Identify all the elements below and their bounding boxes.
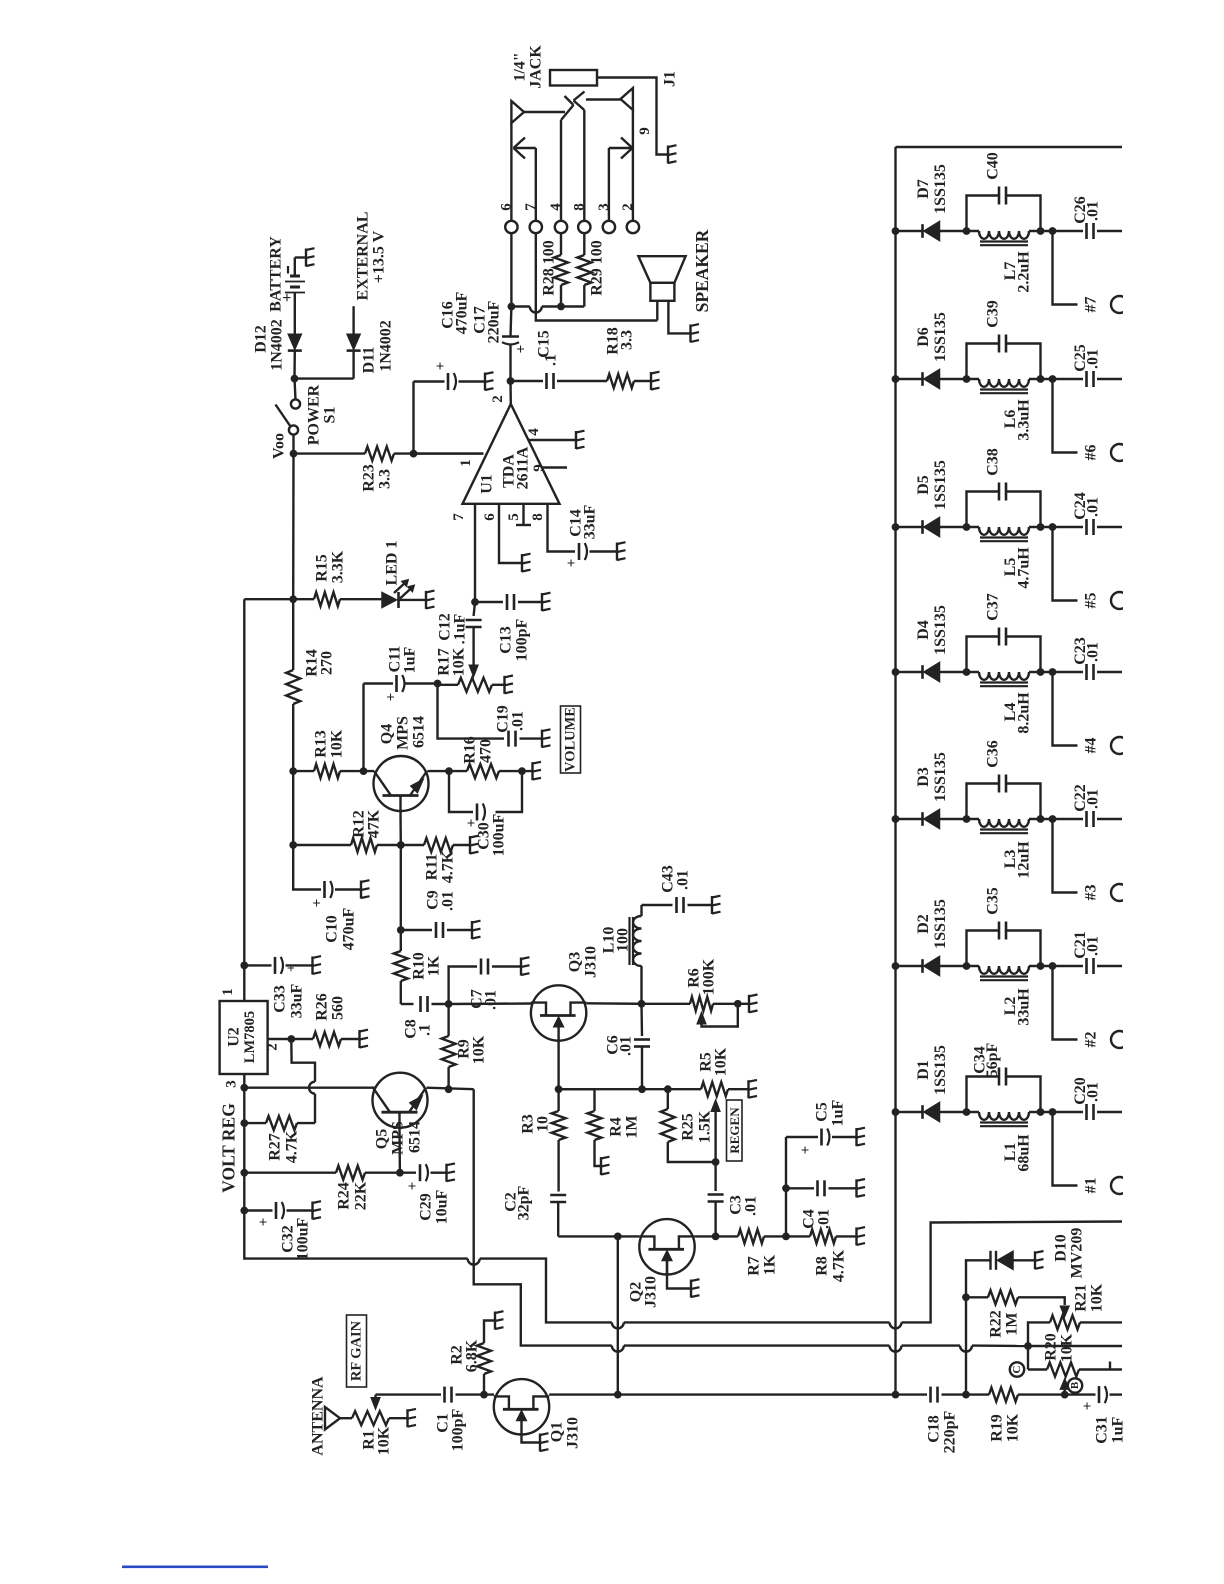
page margin mask bbox=[1123, 0, 1224, 1584]
label C17 220uF bbox=[472, 300, 503, 343]
potentiometer R20 10K bbox=[1028, 1362, 1122, 1377]
capacitor C43 .01 bbox=[677, 897, 712, 913]
svg-text:10K: 10K bbox=[471, 1035, 488, 1064]
svg-text:100uF: 100uF bbox=[491, 813, 508, 856]
LED 1 bbox=[382, 580, 415, 609]
svg-text:.01: .01 bbox=[1085, 642, 1102, 662]
wire C16 to ground bbox=[459, 380, 486, 382]
wiper REGEN (R5) bbox=[711, 1100, 720, 1163]
svg-text:100pF: 100pF bbox=[450, 1408, 467, 1451]
svg-text:D4: D4 bbox=[915, 620, 932, 640]
resistor R4 1M (vertical) bbox=[559, 1089, 602, 1166]
wire bus to D4 bbox=[896, 671, 923, 673]
wiper arrow R21 bbox=[1060, 1306, 1069, 1317]
wire bus to D3 bbox=[896, 818, 923, 820]
transistor Q2 J310 bbox=[639, 1219, 694, 1274]
svg-text:32pF: 32pF bbox=[516, 1185, 533, 1220]
label RF GAIN box bbox=[347, 1315, 367, 1387]
label C24 .01 bbox=[1072, 492, 1102, 520]
resistor R27 4.7K bbox=[244, 1116, 315, 1130]
wire bus to D6 bbox=[896, 378, 923, 380]
varactor D10 MV209 bbox=[991, 1251, 1035, 1270]
resistor R13 10K bbox=[314, 764, 340, 778]
label U1 TDA2611A bbox=[479, 446, 532, 494]
label C12 .1uF bbox=[437, 613, 469, 644]
resistor R8 4.7K bbox=[786, 1229, 856, 1243]
svg-text:.01: .01 bbox=[1085, 936, 1102, 956]
ground (pin4) bbox=[576, 431, 585, 449]
svg-text:C29: C29 bbox=[418, 1193, 435, 1221]
svg-text:1SS135: 1SS135 bbox=[932, 312, 949, 362]
node C circled bbox=[1010, 1346, 1028, 1377]
svg-text:12uH: 12uH bbox=[1016, 841, 1033, 879]
label R24 22K bbox=[336, 1181, 370, 1210]
wire Q4 line down bbox=[397, 845, 405, 934]
svg-text:220uF: 220uF bbox=[486, 300, 503, 343]
svg-text:1SS135: 1SS135 bbox=[932, 1045, 949, 1095]
svg-text:D3: D3 bbox=[915, 767, 932, 787]
label C13 100pF bbox=[498, 618, 531, 661]
capacitor C12 .1uF bbox=[466, 602, 482, 666]
label C34 56pF bbox=[972, 1042, 1002, 1077]
svg-text:SPEAKER: SPEAKER bbox=[692, 229, 712, 312]
label C16 470uF bbox=[440, 291, 471, 334]
svg-text:.01: .01 bbox=[675, 870, 692, 890]
inductor L7 2.2uH bbox=[979, 231, 1029, 245]
wire D3 to tank bbox=[940, 815, 980, 823]
svg-text:6.8K: 6.8K bbox=[464, 1339, 481, 1372]
jack contact 7 bbox=[514, 138, 536, 222]
ground (C43) bbox=[712, 896, 721, 914]
wire Q3 drain to L10 node bbox=[586, 1000, 645, 1008]
capacitor C5 1uF bbox=[786, 1129, 856, 1189]
ground (R11) bbox=[470, 836, 479, 854]
svg-text:C35: C35 bbox=[985, 887, 1002, 915]
label R5 10K bbox=[698, 1047, 730, 1076]
svg-text:9: 9 bbox=[531, 464, 547, 472]
capacitor C18 220pF bbox=[931, 1387, 970, 1403]
battery B1 bbox=[279, 258, 306, 303]
svg-text:10K: 10K bbox=[1005, 1413, 1022, 1442]
svg-text:MPS: MPS bbox=[395, 716, 412, 750]
svg-text:270: 270 bbox=[319, 651, 336, 675]
label C2 32pF bbox=[503, 1185, 533, 1220]
wire bus to D2 bbox=[896, 965, 923, 967]
node band bus row 2 bbox=[892, 962, 900, 970]
svg-text:#7: #7 bbox=[1083, 297, 1100, 313]
capacitor C6 .01 bbox=[634, 1004, 650, 1093]
label EXTERNAL +13.5 V bbox=[355, 212, 388, 301]
svg-text:R7: R7 bbox=[746, 1256, 763, 1276]
label C18 220pF bbox=[926, 1410, 959, 1453]
diode D11 1N4002 bbox=[347, 334, 361, 350]
svg-text:6: 6 bbox=[482, 513, 498, 521]
svg-text:3.3: 3.3 bbox=[619, 330, 636, 350]
wire R16 to ground bbox=[499, 767, 532, 775]
svg-text:4.7K: 4.7K bbox=[831, 1249, 848, 1282]
svg-text:C10: C10 bbox=[324, 915, 341, 943]
svg-text:+: + bbox=[1080, 1402, 1096, 1411]
wire C11 riser bbox=[362, 684, 364, 772]
svg-text:2611A: 2611A bbox=[515, 446, 532, 489]
svg-text:J310: J310 bbox=[565, 1417, 582, 1449]
ground (Q1) bbox=[540, 1433, 549, 1451]
wiper arrow R20 bbox=[1060, 1378, 1069, 1394]
svg-text:C38: C38 bbox=[985, 448, 1002, 476]
potentiometer R5 10K bbox=[701, 1082, 748, 1096]
ground (C4) bbox=[857, 1179, 866, 1197]
svg-text:R23: R23 bbox=[361, 464, 378, 492]
terminal #6 bbox=[1053, 379, 1129, 461]
diode D7 1SS135 bbox=[923, 222, 940, 241]
label D4 1SS135 bbox=[915, 605, 949, 655]
capacitor C16 470uF bbox=[433, 362, 456, 390]
node band bus row 6 bbox=[892, 375, 900, 383]
wire tank to C3 node bbox=[1029, 815, 1056, 823]
node band bus row 4 bbox=[892, 668, 900, 676]
svg-text:R13: R13 bbox=[313, 730, 330, 758]
resistor R22 1M bbox=[966, 1290, 1065, 1305]
svg-text:1uF: 1uF bbox=[402, 646, 419, 673]
jack J1 body bbox=[550, 70, 597, 86]
capacitor C31 1uF bbox=[1065, 1386, 1122, 1410]
capacitor C32 100uF bbox=[256, 1202, 312, 1226]
label C21 .01 bbox=[1072, 931, 1102, 959]
wire tank to C6 node bbox=[1029, 375, 1056, 383]
svg-text:1K: 1K bbox=[762, 1254, 779, 1275]
inductor L10 100 bbox=[630, 905, 642, 1004]
label C40 bbox=[985, 152, 1002, 180]
svg-text:1SS135: 1SS135 bbox=[932, 605, 949, 655]
label Voo bbox=[271, 433, 288, 459]
svg-text:.1: .1 bbox=[543, 354, 560, 366]
capacitor C15 .1 bbox=[547, 373, 554, 389]
svg-text:220pF: 220pF bbox=[942, 1410, 959, 1453]
svg-text:10K: 10K bbox=[1089, 1283, 1106, 1312]
jack contact 4 bbox=[561, 96, 574, 221]
ground (C10) bbox=[361, 880, 370, 898]
wire bus to U2 pin1 bbox=[243, 965, 245, 1001]
wire R24 to C29 bbox=[365, 1171, 416, 1173]
svg-text:#5: #5 bbox=[1083, 593, 1100, 609]
svg-text:2: 2 bbox=[265, 1043, 281, 1051]
svg-text:ANTENNA: ANTENNA bbox=[310, 1376, 327, 1456]
node band bus row 5 bbox=[892, 523, 900, 531]
svg-text:POWER: POWER bbox=[306, 384, 323, 445]
svg-text:1uF: 1uF bbox=[830, 1099, 847, 1126]
svg-text:C36: C36 bbox=[985, 740, 1002, 768]
transistor Q1 J310 bbox=[494, 1379, 549, 1434]
svg-text:470uF: 470uF bbox=[454, 291, 471, 334]
node B circled bbox=[1068, 1378, 1082, 1392]
wire D2 to tank bbox=[940, 962, 980, 970]
label L4 bbox=[1002, 692, 1033, 734]
label D1 1SS135 bbox=[915, 1045, 949, 1095]
svg-text:2: 2 bbox=[490, 395, 506, 403]
resistor R23 3.3 bbox=[365, 447, 394, 461]
svg-text:+: + bbox=[564, 559, 580, 568]
svg-text:7: 7 bbox=[451, 513, 467, 521]
capacitor C30 100uF bbox=[464, 804, 485, 828]
label R19 10K bbox=[989, 1413, 1022, 1442]
label Q1 J310 bbox=[549, 1417, 582, 1449]
svg-text:R26: R26 bbox=[314, 993, 331, 1021]
wire C19 branch bbox=[438, 684, 505, 739]
diode D6 1SS135 bbox=[923, 370, 940, 389]
label C14 33uF bbox=[568, 504, 599, 539]
wire R15 row bbox=[293, 598, 314, 600]
wire tuning column bbox=[962, 1260, 990, 1394]
resistor R12 47K bbox=[351, 838, 377, 852]
svg-text:R4: R4 bbox=[608, 1117, 625, 1137]
resistor R24 22K bbox=[336, 1166, 365, 1180]
svg-text:.1uF: .1uF bbox=[452, 613, 469, 644]
terminal #2 bbox=[1053, 966, 1129, 1048]
node band bus row 3 bbox=[892, 815, 900, 823]
inductor L4 8.2uH bbox=[979, 672, 1029, 686]
label C25 .01 bbox=[1072, 344, 1102, 372]
svg-text:+13.5 V: +13.5 V bbox=[371, 230, 388, 283]
resistor R9 10K (vertical) bbox=[442, 1004, 456, 1089]
wire to C17 bbox=[509, 307, 512, 337]
svg-text:.01: .01 bbox=[816, 1209, 833, 1229]
label D3 1SS135 bbox=[915, 752, 949, 802]
resistor R29 100 bbox=[577, 233, 591, 307]
svg-text:D6: D6 bbox=[915, 327, 932, 347]
label C11 1uF bbox=[387, 646, 419, 674]
label D11 bbox=[361, 320, 395, 373]
svg-text:100uF: 100uF bbox=[295, 1217, 312, 1260]
svg-text:4.7K: 4.7K bbox=[440, 850, 457, 883]
jack contact 6 bbox=[511, 101, 565, 221]
svg-text:1SS135: 1SS135 bbox=[932, 460, 949, 510]
resistor R7 1K bbox=[716, 1229, 790, 1243]
wire Q5 collector lead bbox=[396, 1128, 404, 1177]
op-amp U1 TDA2611A bbox=[463, 404, 560, 504]
wire tank to C2 node bbox=[1029, 962, 1056, 970]
wire volt-reg bus bbox=[240, 599, 293, 969]
ground (C13) bbox=[542, 593, 551, 611]
svg-text:6: 6 bbox=[498, 203, 514, 211]
capacitor C14 33uF bbox=[564, 543, 587, 567]
svg-text:+: + bbox=[256, 1218, 272, 1227]
svg-text:#1: #1 bbox=[1083, 1178, 1100, 1194]
svg-text:1SS135: 1SS135 bbox=[932, 752, 949, 802]
label R28 100 bbox=[541, 240, 558, 296]
diode D5 1SS135 bbox=[923, 518, 940, 537]
svg-text:R19: R19 bbox=[989, 1414, 1006, 1442]
label R6 100K bbox=[686, 958, 718, 995]
label L1 bbox=[1002, 1134, 1033, 1172]
svg-text:B: B bbox=[1069, 1381, 1081, 1389]
pin3 wire U2 bbox=[224, 1074, 249, 1092]
label R3 10 bbox=[520, 1114, 552, 1134]
inductor L5 4.7uH bbox=[979, 527, 1029, 541]
svg-text:.01: .01 bbox=[483, 990, 500, 1010]
svg-text:RF GAIN: RF GAIN bbox=[349, 1320, 365, 1381]
svg-text:#3: #3 bbox=[1083, 885, 1100, 901]
label C19 .01 bbox=[495, 705, 527, 733]
svg-text:3.3K: 3.3K bbox=[330, 550, 347, 583]
wire pin2 bbox=[509, 381, 512, 404]
svg-text:.01: .01 bbox=[1085, 789, 1102, 809]
svg-text:MPS: MPS bbox=[390, 1121, 407, 1155]
svg-text:10K: 10K bbox=[1059, 1333, 1076, 1362]
wire jack bus down bbox=[508, 233, 516, 310]
svg-text:.01: .01 bbox=[1085, 1082, 1102, 1102]
svg-text:D12: D12 bbox=[253, 325, 270, 353]
svg-text:Q5: Q5 bbox=[374, 1129, 391, 1149]
svg-text:Voo: Voo bbox=[271, 433, 288, 459]
wire C15 to R18 bbox=[557, 380, 607, 382]
label 1/4 JACK bbox=[512, 45, 545, 89]
capacitor C9 .01 bbox=[401, 922, 472, 938]
capacitor C13 100pF bbox=[475, 594, 541, 610]
ground (battery) bbox=[306, 248, 315, 266]
label C1 100pF bbox=[435, 1408, 467, 1451]
pin 5 stub bbox=[506, 504, 531, 525]
svg-text:D11: D11 bbox=[361, 347, 378, 374]
wire C2 to Q2 bbox=[558, 1233, 639, 1241]
resistor R2 6.8K (vertical) bbox=[477, 1321, 495, 1395]
ground (C9) bbox=[472, 921, 481, 939]
capacitor C3 .01 bbox=[708, 1162, 724, 1240]
jack contact 8 bbox=[574, 92, 585, 222]
svg-text:10K: 10K bbox=[376, 1426, 393, 1455]
svg-text:EXTERNAL: EXTERNAL bbox=[355, 212, 372, 301]
capacitor C4 .01 bbox=[782, 1180, 856, 1236]
resistor R25 1.5K (vertical) bbox=[661, 1089, 720, 1166]
antenna bbox=[325, 1407, 352, 1430]
label C22 .01 bbox=[1072, 784, 1102, 812]
svg-text:8: 8 bbox=[571, 203, 587, 211]
svg-text:D2: D2 bbox=[915, 914, 932, 934]
svg-text:R22: R22 bbox=[988, 1310, 1005, 1338]
label C23 .01 bbox=[1072, 637, 1102, 665]
label C35 bbox=[985, 887, 1002, 915]
diode D12 1N4002 bbox=[288, 334, 302, 350]
wire LED to ground bbox=[399, 599, 426, 601]
svg-text:.01: .01 bbox=[440, 891, 457, 911]
capacitor C21 .01 bbox=[1053, 958, 1123, 974]
label D2 1SS135 bbox=[915, 899, 949, 949]
node C11/R17 bbox=[434, 680, 442, 688]
label C32 100uF bbox=[280, 1217, 312, 1260]
svg-text:560: 560 bbox=[330, 996, 347, 1020]
svg-text:D5: D5 bbox=[915, 475, 932, 495]
capacitor C39 bridge bbox=[967, 335, 1045, 383]
label L6 bbox=[1002, 399, 1033, 441]
svg-text:1N4002: 1N4002 bbox=[269, 319, 286, 371]
svg-text:1M: 1M bbox=[1004, 1312, 1021, 1335]
pin 4 wire bbox=[526, 428, 576, 440]
capacitor C19 .01 bbox=[509, 731, 542, 747]
svg-text:6514: 6514 bbox=[411, 716, 428, 748]
band top border bbox=[896, 146, 1123, 148]
wire D5 to tank bbox=[940, 523, 980, 531]
label D7 1SS135 bbox=[915, 164, 949, 214]
label R17 10K bbox=[436, 647, 468, 676]
svg-text:1: 1 bbox=[220, 988, 236, 996]
ground (pin6) bbox=[522, 554, 531, 572]
svg-text:VOLUME: VOLUME bbox=[563, 707, 579, 772]
ground (R5) bbox=[749, 1080, 758, 1098]
label L7 bbox=[1002, 251, 1033, 293]
wire bus to D1 bbox=[896, 1111, 923, 1113]
svg-text:R15: R15 bbox=[314, 554, 331, 582]
band bus bbox=[894, 147, 896, 1395]
label Q5 MPS 6514 bbox=[374, 1121, 424, 1155]
svg-text:9: 9 bbox=[637, 127, 653, 135]
svg-text:.1: .1 bbox=[417, 1024, 434, 1036]
svg-text:C13: C13 bbox=[498, 626, 515, 654]
ground (D10) bbox=[1035, 1251, 1044, 1269]
capacitor C40 bridge bbox=[967, 187, 1045, 235]
label C15 .1 bbox=[536, 330, 560, 366]
svg-text:BATTERY: BATTERY bbox=[268, 236, 285, 312]
svg-text:8.2uH: 8.2uH bbox=[1016, 692, 1033, 734]
svg-text:R8: R8 bbox=[814, 1256, 831, 1276]
wire bus to C10 bbox=[293, 845, 321, 890]
pin 6 wire bbox=[482, 504, 522, 563]
capacitor C2 32pF bbox=[550, 1140, 566, 1236]
svg-text:C37: C37 bbox=[985, 593, 1002, 621]
label R20 10K bbox=[1043, 1333, 1076, 1362]
svg-text:2.2uH: 2.2uH bbox=[1016, 251, 1033, 293]
label Q4 MPS 6514 bbox=[379, 716, 428, 750]
ground (C14) bbox=[617, 542, 626, 560]
ground (C29) bbox=[447, 1163, 456, 1181]
svg-text:C39: C39 bbox=[985, 300, 1002, 328]
svg-text:1/4": 1/4" bbox=[512, 52, 529, 81]
label R1 10K bbox=[361, 1426, 393, 1455]
wire Q2 gate to ground bbox=[667, 1261, 691, 1289]
ground (C32) bbox=[313, 1201, 322, 1219]
capacitor C24 .01 bbox=[1053, 519, 1123, 535]
wire bus to D7 bbox=[896, 230, 923, 232]
ground (R6) bbox=[749, 995, 758, 1013]
label C30 100uF bbox=[476, 813, 508, 856]
svg-text:#4: #4 bbox=[1083, 738, 1100, 754]
svg-text:3: 3 bbox=[224, 1080, 240, 1088]
label LED 1 bbox=[384, 541, 401, 586]
wire tank to C1 node bbox=[1029, 1108, 1056, 1116]
terminal #1 bbox=[1053, 1112, 1129, 1194]
wire Q1 drain row bbox=[549, 1391, 927, 1399]
resistor R3 10 (vertical) bbox=[552, 1089, 566, 1140]
label D12 bbox=[253, 319, 286, 371]
wire R13 to Q4 bbox=[340, 767, 374, 775]
svg-text:+: + bbox=[405, 1182, 421, 1191]
ground (R8) bbox=[857, 1227, 866, 1245]
capacitor C36 bridge bbox=[967, 775, 1045, 823]
svg-text:R11: R11 bbox=[424, 854, 441, 881]
svg-text:Q4: Q4 bbox=[379, 724, 396, 744]
svg-text:470: 470 bbox=[478, 739, 495, 763]
wire bus to R12 bbox=[289, 771, 351, 849]
svg-text:C31: C31 bbox=[1094, 1416, 1111, 1444]
svg-text:D1: D1 bbox=[915, 1060, 932, 1080]
capacitor C11 1uF bbox=[364, 675, 438, 701]
svg-text:C33: C33 bbox=[272, 985, 289, 1013]
svg-text:D10: D10 bbox=[1053, 1234, 1070, 1262]
node R13 bus bbox=[289, 767, 297, 775]
label D6 1SS135 bbox=[915, 312, 949, 362]
label D10 MV209 bbox=[1053, 1228, 1086, 1279]
label C43 .01 bbox=[660, 865, 692, 893]
label Q3 J310 bbox=[567, 946, 600, 978]
label C8 .1 bbox=[403, 1019, 434, 1039]
